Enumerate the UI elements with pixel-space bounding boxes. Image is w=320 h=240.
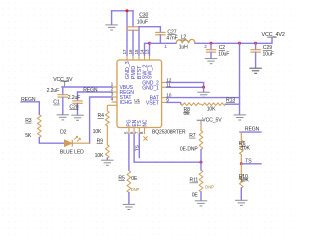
- top pin names GND_3 PMID BTST SW_2 SW_1: [125, 61, 154, 79]
- wire R10 gnd: [240, 188, 242, 200]
- LED D2: [64, 136, 80, 146]
- wire R11 top: [200, 162, 202, 170]
- net label REGN: [21, 97, 36, 103]
- wire PMID riser lower: [132, 30, 134, 55]
- label D2: [60, 129, 67, 135]
- value 10uF: [218, 52, 229, 58]
- ground: [249, 68, 261, 73]
- value 10K: [95, 153, 104, 159]
- wire R8-R13 link: [200, 103, 202, 105]
- value 2.2uF: [47, 88, 60, 94]
- junction EN node: [200, 161, 203, 164]
- value 1uH: [179, 44, 188, 50]
- power flag VCC_5V mid: [197, 120, 204, 124]
- net label TS: [245, 158, 252, 164]
- svg-text:10uF: 10uF: [263, 52, 274, 58]
- svg-text:47nF: 47nF: [166, 35, 177, 41]
- value 5K: [25, 133, 32, 139]
- wire STAT to LED cathode: [90, 97, 112, 143]
- svg-text:DNP: DNP: [131, 187, 140, 192]
- svg-text:0E-DNP: 0E-DNP: [180, 147, 199, 153]
- wire R7 top lead: [200, 125, 202, 131]
- value 0E: [184, 111, 191, 117]
- svg-text:R3: R3: [25, 118, 32, 124]
- value 0E: [192, 192, 199, 198]
- svg-text:D2: D2: [60, 129, 67, 135]
- wire VCC drop to gnd: [239, 43, 241, 114]
- value 0E-DNP: [180, 147, 199, 153]
- capacitor C28: [72, 101, 82, 103]
- svg-text:C2: C2: [219, 45, 226, 51]
- label C27: [167, 29, 176, 35]
- ground: [205, 59, 217, 64]
- wire gnd stem: [203, 87, 205, 92]
- wire VSET to R8: [167, 102, 181, 104]
- value 2.2uF: [68, 95, 81, 101]
- value 10K: [93, 129, 102, 135]
- svg-text:VCC_4V2: VCC_4V2: [262, 32, 285, 38]
- svg-text:C1: C1: [53, 100, 60, 106]
- power flag VCC_4V2: [267, 36, 276, 38]
- wire EN run: [134, 134, 201, 162]
- resistor R4: [106, 111, 110, 126]
- label VCC_5V: [202, 118, 222, 124]
- value 47nF: [166, 35, 177, 41]
- svg-text:R4: R4: [98, 113, 105, 119]
- svg-text:C29: C29: [263, 45, 272, 51]
- svg-text:1uH: 1uH: [179, 44, 188, 50]
- node 1: [164, 44, 167, 49]
- svg-text:10K: 10K: [240, 178, 249, 184]
- ground: [197, 92, 209, 97]
- label R8: [184, 107, 191, 113]
- svg-text:NC: NC: [142, 119, 148, 127]
- svg-text:C28: C28: [69, 104, 78, 110]
- svg-text:10K: 10K: [95, 153, 104, 159]
- wire GND_1: [167, 86, 204, 88]
- label R7: [189, 133, 196, 139]
- ground: [234, 115, 246, 120]
- svg-text:C30: C30: [139, 12, 148, 18]
- left pin names VBUS REGN STAT ICHG: [120, 85, 135, 106]
- ground: [123, 204, 135, 209]
- wire gnd stem: [111, 11, 113, 25]
- right pin names GND_2 GND_1 BAT VSET: [142, 81, 159, 107]
- net label REGN: [83, 87, 98, 93]
- svg-text:10uF: 10uF: [218, 52, 229, 58]
- svg-text:TS: TS: [135, 144, 141, 151]
- label R9: [97, 139, 104, 145]
- wire SW_1 riser: [149, 43, 151, 55]
- wire C2 stem: [210, 43, 212, 49]
- junction C29: [254, 42, 257, 45]
- value 10K: [207, 107, 216, 113]
- value 10K: [241, 146, 250, 152]
- svg-text:BQ25308RTER: BQ25308RTER: [152, 129, 186, 135]
- label BLUE LED: [60, 150, 84, 156]
- resistor R3: [38, 115, 42, 138]
- wire R7 bottom: [200, 150, 202, 163]
- label R4: [98, 113, 105, 119]
- label C30: [139, 12, 148, 18]
- junction: [126, 9, 129, 12]
- label C29: [263, 45, 272, 51]
- wire C28 stem: [77, 92, 79, 101]
- wire R9 gnd: [106, 158, 108, 160]
- wire VCC_4V2 rail: [195, 37, 272, 43]
- node 2: [204, 44, 207, 49]
- wire C27 lower: [159, 35, 161, 43]
- svg-text:10K: 10K: [93, 129, 102, 135]
- wire LED cathode lead: [72, 142, 89, 144]
- junction GND node: [202, 86, 205, 89]
- wire VBUS: [62, 86, 112, 88]
- wire REGN stub to R3: [21, 102, 39, 115]
- label C28: [69, 104, 78, 110]
- svg-text:R7: R7: [189, 133, 196, 139]
- wire R13 right: [226, 103, 240, 105]
- part number BQ25308RTER: [152, 129, 186, 135]
- wire PMID riser upper: [132, 11, 134, 27]
- wire R4-R9 link: [106, 126, 108, 145]
- power flag VCC_5V: [60, 81, 69, 87]
- capacitor C29: [250, 50, 260, 52]
- resistor R8: [181, 103, 200, 106]
- U1 top pin stubs 17-13: [127, 55, 150, 60]
- wire R6 bottom lead: [240, 155, 242, 164]
- wire TS stub: [138, 134, 140, 157]
- wire GND_3 riser: [126, 11, 128, 55]
- wire ICHG jog: [107, 105, 116, 111]
- ground: [71, 115, 83, 120]
- svg-text:0E: 0E: [192, 192, 199, 198]
- svg-text:0E: 0E: [184, 111, 191, 117]
- wire C1 lower: [62, 97, 64, 114]
- pin numbers 5 6 7 8: [124, 131, 145, 134]
- svg-text:5K: 5K: [25, 133, 32, 139]
- svg-text:10K: 10K: [241, 146, 250, 152]
- wire SW_2 riser: [145, 43, 150, 55]
- ground: [101, 160, 113, 165]
- svg-text:VSET: VSET: [146, 101, 159, 107]
- resistor R9: [106, 145, 110, 158]
- wire REGN stub: [240, 131, 261, 133]
- svg-text:SW_1: SW_1: [147, 65, 153, 80]
- svg-text:U1: U1: [134, 98, 140, 103]
- wire BAT: [167, 97, 240, 99]
- wire C1 stem: [62, 87, 64, 95]
- wire R3 to LED anode: [39, 137, 64, 143]
- svg-text:R9: R9: [97, 139, 104, 145]
- ground: [235, 200, 247, 205]
- resistor R10: [240, 174, 244, 188]
- wire R11 gnd: [200, 192, 202, 200]
- resistor R13: [202, 103, 226, 106]
- svg-text:VCC_5V: VCC_5V: [202, 118, 222, 124]
- label L2: [181, 35, 187, 41]
- value 10uF: [263, 52, 274, 58]
- junction TS node: [240, 162, 243, 165]
- ground: [105, 25, 117, 30]
- svg-text:REGN: REGN: [83, 87, 98, 93]
- wire C28 lower: [77, 104, 79, 115]
- wire R10 top lead: [240, 164, 242, 174]
- svg-text:2.2uF: 2.2uF: [47, 88, 60, 94]
- resistor R5: [127, 171, 131, 193]
- wire C29 lower: [255, 52, 257, 68]
- label R3: [25, 118, 32, 124]
- pin numbers 17 16 15 14 13: [122, 49, 150, 54]
- label C2: [219, 45, 226, 51]
- svg-text:ICHG: ICHG: [120, 100, 132, 106]
- resistor R7: [199, 131, 203, 150]
- svg-text:R13: R13: [226, 97, 235, 103]
- svg-text:10uF: 10uF: [137, 20, 148, 26]
- junction SW node: [148, 42, 151, 45]
- wire REGN pin2: [78, 91, 112, 93]
- svg-text:GND_1: GND_1: [142, 85, 159, 91]
- resistor R6: [240, 140, 244, 155]
- svg-text:DNP: DNP: [205, 184, 214, 189]
- resistor R11: [199, 170, 203, 192]
- wire C29 stem: [255, 43, 257, 49]
- value 10uF: [137, 20, 148, 26]
- junction C2: [210, 42, 213, 45]
- IC U1 BQ25308RTER body: [117, 60, 162, 128]
- U1 left pin stubs 1-4: [112, 87, 118, 102]
- label C1: [53, 100, 60, 106]
- label DNP: [131, 187, 140, 192]
- capacitor C2: [206, 50, 216, 52]
- wire R5 gnd: [128, 193, 130, 205]
- label DNP: [205, 184, 214, 189]
- svg-text:BLUE LED: BLUE LED: [60, 150, 84, 156]
- value 0E: [131, 176, 138, 182]
- inductor L2: [176, 39, 195, 43]
- svg-text:10K: 10K: [207, 107, 216, 113]
- wire SW to L2: [150, 42, 177, 44]
- U1 right pin stubs 12 11 10 9: [162, 82, 167, 102]
- capacitor C30: [127, 27, 140, 30]
- net label REGN: [245, 127, 260, 133]
- label VCC_5V: [53, 77, 73, 83]
- wire C2 lower: [210, 52, 212, 58]
- label VCC_4V2: [262, 32, 285, 38]
- label R10: [239, 174, 248, 180]
- ground: [57, 115, 69, 120]
- svg-text:2.2uF: 2.2uF: [68, 95, 81, 101]
- svg-text:0E: 0E: [131, 176, 138, 182]
- label R6: [239, 141, 246, 147]
- pin numbers 12 11 10 9: [166, 77, 172, 103]
- wire top gnd run: [112, 10, 133, 12]
- ground: [195, 201, 207, 206]
- wire BTST riser: [139, 27, 160, 55]
- wire PG to R5: [128, 134, 130, 170]
- junction BAT drop: [238, 42, 241, 45]
- label R5: [118, 175, 125, 181]
- net label TS: [135, 144, 141, 151]
- value 10K: [240, 178, 249, 184]
- wire GND_2: [167, 82, 204, 87]
- wire TS stub right: [241, 163, 261, 165]
- label R11: [190, 178, 199, 184]
- bottom pin names PG EN TS NC: [127, 119, 149, 127]
- label R13: [226, 97, 235, 103]
- svg-text:L2: L2: [181, 35, 187, 41]
- capacitor C1: [58, 95, 68, 97]
- capacitor C27: [155, 32, 165, 34]
- pin numbers 1 2 3 4: [111, 82, 114, 103]
- wire R6 top lead: [240, 132, 242, 140]
- svg-text:R11: R11: [190, 178, 199, 184]
- svg-text:R5: R5: [118, 175, 125, 181]
- no-connect X pin 8: [143, 136, 147, 140]
- U1 bottom pin stubs 5-8: [129, 128, 145, 135]
- svg-text:VCC_5V: VCC_5V: [53, 77, 73, 83]
